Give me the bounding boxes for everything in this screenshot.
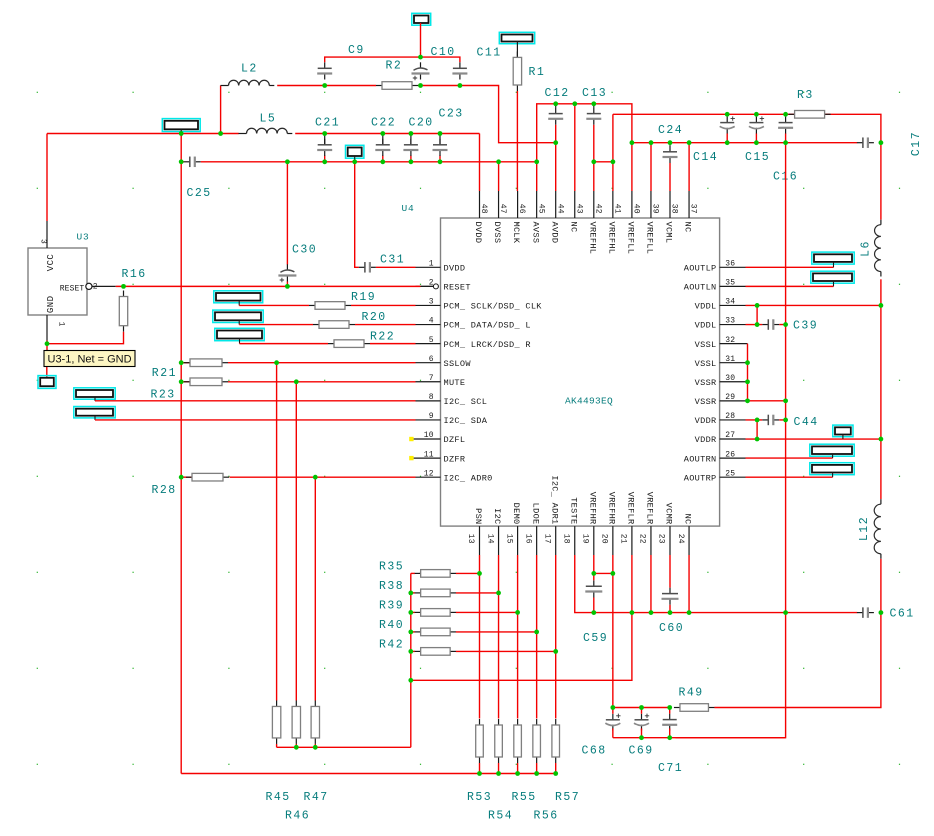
svg-text:L5: L5	[260, 113, 277, 126]
capacitor C31	[359, 262, 376, 273]
svg-text:L2: L2	[241, 63, 258, 76]
svg-text:VREFHL: VREFHL	[606, 222, 616, 255]
svg-text:10: 10	[424, 431, 434, 440]
wire rail1 down to U3 VCC	[46, 134, 48, 222]
svg-text:30: 30	[725, 374, 735, 383]
wire C20 bottom lead	[410, 155, 412, 161]
svg-text:14: 14	[485, 534, 494, 544]
svg-text:1: 1	[429, 260, 434, 269]
wire L2 row to C9	[277, 85, 325, 87]
svg-text:28: 28	[725, 412, 735, 421]
wire AOUTRN pin26	[746, 457, 833, 459]
svg-text:DEM0: DEM0	[511, 503, 521, 525]
capacitor C13	[586, 108, 601, 125]
svg-text:C10: C10	[431, 46, 456, 59]
wire R38 left feed	[411, 592, 415, 594]
wire C44 right lead	[779, 419, 785, 421]
svg-text:TESTE: TESTE	[568, 497, 578, 524]
wire C68 leads	[612, 708, 614, 714]
wire C60 bottom lead	[669, 605, 671, 613]
wire pin17 column down	[555, 555, 557, 719]
resistor R3	[789, 111, 831, 119]
pin 36 AOUTLP	[684, 260, 746, 274]
svg-text:AOUTLP: AOUTLP	[684, 264, 717, 274]
pin 12 I2C_ ADR0	[416, 469, 493, 483]
pin 43 NC	[568, 191, 583, 232]
svg-text:7: 7	[429, 374, 434, 383]
svg-text:C20: C20	[409, 117, 434, 130]
wire port TP1 stub	[180, 129, 182, 133]
resistor R39	[415, 609, 457, 617]
svg-text:R35: R35	[379, 561, 404, 574]
wire VDDL to VDDR segment	[880, 305, 882, 439]
svg-text:I2C_ SCL: I2C_ SCL	[444, 397, 488, 407]
pin 44 AVDD	[549, 191, 564, 243]
wire VCC rail1 horizontal right	[295, 133, 479, 135]
wire C12 top lead	[555, 104, 557, 108]
pin 8 I2C_ SCL	[416, 393, 488, 407]
svg-text:20: 20	[600, 534, 609, 544]
pin 30 VSSR	[695, 374, 748, 388]
svg-text:I2C_ SDA: I2C_ SDA	[444, 416, 488, 426]
capacitor C15	[749, 116, 764, 133]
capacitor C71	[662, 714, 677, 731]
wire R38 to pin column	[456, 592, 499, 594]
wire C69 leads	[641, 708, 643, 714]
wire pad stub R20	[238, 320, 240, 324]
svg-text:C15: C15	[745, 151, 770, 164]
wire pin21 drop through rail	[631, 555, 633, 613]
svg-text:34: 34	[725, 298, 735, 307]
pin 11 DZFR	[409, 450, 465, 464]
svg-text:GND: GND	[46, 296, 56, 314]
wire C10 bottom to cap2 bottom	[421, 85, 460, 87]
wire R45 bottom lead	[276, 744, 278, 747]
wire R45 column	[276, 363, 278, 701]
wire C24 top lead	[669, 143, 671, 146]
wire R40 left feed	[411, 631, 415, 633]
svg-text:R19: R19	[351, 291, 376, 304]
svg-text:24: 24	[676, 534, 685, 544]
wire R39 to pin column	[456, 611, 518, 613]
svg-text:SSLOW: SSLOW	[444, 359, 472, 369]
svg-text:DZFR: DZFR	[444, 454, 466, 464]
pin 26 AOUTRN	[684, 450, 746, 464]
pin 29 VSSR	[695, 393, 748, 407]
pin 37 NC	[683, 191, 698, 232]
svg-text:C68: C68	[582, 745, 607, 758]
svg-text:R42: R42	[379, 639, 404, 652]
wire pin42 drop	[593, 162, 595, 191]
svg-text:MCLK: MCLK	[511, 222, 521, 244]
svg-text:38: 38	[670, 204, 679, 214]
pin 27 VDDR	[695, 431, 746, 445]
svg-text:3: 3	[38, 239, 47, 244]
resistor R57	[552, 719, 560, 763]
wire R46 bottom lead	[295, 744, 297, 747]
svg-text:C60: C60	[659, 622, 684, 635]
svg-text:40: 40	[632, 204, 641, 214]
wire AOUTRP pin25	[746, 476, 833, 478]
pin 39 VREFLL	[645, 191, 660, 254]
wire rail2 GND horizontal	[181, 161, 184, 163]
resistor R45	[272, 700, 280, 744]
svg-text:VREFLL: VREFLL	[626, 222, 636, 255]
svg-text:C13: C13	[582, 87, 607, 100]
resistor R28	[186, 473, 229, 481]
wire R39 left feed	[411, 611, 415, 613]
svg-text:R21: R21	[152, 367, 177, 380]
svg-text:42: 42	[593, 204, 602, 214]
svg-text:R49: R49	[679, 687, 704, 700]
wire pin39 drop	[650, 143, 652, 191]
wire AOUTLN pin35	[746, 285, 834, 287]
svg-text:AVSS: AVSS	[530, 222, 540, 244]
wire R21 to pin6 SSLOW	[228, 362, 416, 364]
svg-text:39: 39	[651, 204, 660, 214]
wire R19 to pin3	[351, 304, 416, 306]
U3 pin 1 GND stub	[46, 296, 66, 341]
wire C20 top lead	[410, 134, 412, 145]
wire C15 leads	[755, 114, 757, 116]
wire C10 top to cap2 top	[421, 57, 460, 62]
svg-text:31: 31	[725, 355, 735, 364]
wire bridge 42-41	[594, 161, 613, 163]
svg-text:15: 15	[504, 534, 513, 544]
svg-text:PCM_ DATA/DSD_ L: PCM_ DATA/DSD_ L	[444, 321, 531, 331]
wire pin22 drop	[650, 555, 652, 613]
wire to R28	[181, 476, 192, 478]
pin 41 VREFHL	[606, 191, 621, 254]
svg-text:C30: C30	[292, 244, 317, 257]
pin 17 I2C_ ADR1	[542, 475, 559, 555]
svg-text:R56: R56	[534, 810, 559, 823]
wire R2 to C10 bottom	[418, 85, 421, 87]
wire C30 drop from rail2	[286, 162, 288, 265]
capacitor C59	[585, 580, 602, 597]
svg-text:C22: C22	[371, 117, 396, 130]
wire pin24 drop	[688, 555, 690, 613]
wire rail1 to C25 vertical	[180, 134, 182, 162]
wire GND resume below tooltip	[46, 366, 48, 378]
port TP2	[412, 13, 431, 25]
wire R53 bottom lead	[479, 763, 481, 774]
pin 33 VDDL	[695, 317, 746, 331]
resistor R35	[415, 570, 457, 578]
pin 13 PSN	[466, 508, 483, 555]
svg-text:13: 13	[466, 534, 475, 544]
wire SCL pad stub	[94, 397, 96, 401]
resistor R42	[415, 648, 457, 656]
svg-text:R46: R46	[285, 810, 310, 823]
pin 46 MCLK	[511, 191, 526, 244]
pin 34 VDDL	[695, 298, 746, 312]
capacitor C44	[762, 415, 779, 426]
svg-text:VREFHL: VREFHL	[587, 222, 597, 255]
svg-text:DVDD: DVDD	[473, 222, 483, 244]
pad SDA	[74, 407, 115, 418]
svg-text:C24: C24	[658, 124, 683, 137]
wire R40 to pin column	[456, 631, 537, 633]
svg-text:VREFLR: VREFLR	[626, 492, 636, 525]
wire C23 bottom lead	[439, 155, 441, 161]
wire C22 top lead	[382, 134, 384, 145]
capacitor C20	[403, 139, 418, 156]
wire VDDR down to L12	[880, 439, 882, 499]
resistor R23	[184, 378, 228, 386]
svg-text:9: 9	[429, 412, 434, 421]
U3 pin 3 VCC stub	[38, 221, 56, 271]
svg-text:I2C_ ADR1: I2C_ ADR1	[549, 475, 559, 524]
wire pad stub R22	[239, 339, 241, 344]
wire TP4 stub	[842, 435, 844, 440]
inductor L5	[239, 128, 293, 133]
wire C31 to pin1 DVDD	[376, 266, 416, 268]
svg-text:VSSR: VSSR	[695, 397, 717, 407]
capacitor C61	[857, 607, 874, 618]
svg-text:R20: R20	[362, 311, 387, 324]
capacitor C39	[762, 319, 779, 330]
wire pin21 horizontal y680	[411, 613, 632, 681]
wire VSSR to C16 vertical	[748, 400, 786, 402]
wire C39 branch vertical	[756, 305, 758, 324]
wire pad stub AOUTLP	[833, 262, 835, 267]
svg-text:12: 12	[424, 469, 434, 478]
U3 pin 2 RESET bubble	[60, 282, 116, 293]
svg-text:I2C: I2C	[492, 508, 502, 524]
svg-text:16: 16	[523, 534, 532, 544]
svg-text:VDDR: VDDR	[695, 435, 717, 445]
svg-text:R22: R22	[370, 331, 395, 344]
port GND	[38, 376, 56, 389]
svg-text:C14: C14	[693, 151, 718, 164]
grid dots (decorative)	[37, 92, 900, 765]
wire C68 bottom rail	[613, 737, 786, 739]
svg-text:47: 47	[498, 204, 507, 214]
pad R19	[214, 291, 263, 303]
svg-text:C11: C11	[477, 47, 502, 60]
wire L2 feed down	[220, 86, 222, 134]
pin 10 DZFL	[409, 431, 465, 445]
pin 6 SSLOW	[416, 355, 472, 369]
svg-text:VSSL: VSSL	[695, 340, 717, 350]
wire R55 bottom lead	[517, 763, 519, 774]
wire SDA pad stub	[94, 416, 96, 420]
wire L12 to C61 node	[880, 559, 882, 613]
wire VSSL pin32 corner	[747, 344, 749, 401]
junction dots layer	[45, 55, 884, 776]
svg-text:DZFL: DZFL	[444, 435, 466, 445]
resistor R38	[415, 589, 457, 597]
wire SDA to pin9	[95, 419, 416, 421]
svg-text:44: 44	[555, 204, 564, 214]
svg-text:3: 3	[429, 298, 434, 307]
svg-text:C39: C39	[793, 320, 818, 333]
wire right vertical top segment	[880, 143, 882, 220]
svg-text:R1: R1	[529, 66, 546, 79]
wire pad stub R19	[238, 301, 240, 306]
resistor R22	[328, 340, 370, 348]
pin 2 RESET	[416, 279, 471, 293]
wire R35 left feed	[411, 572, 415, 574]
svg-text:PSN: PSN	[473, 508, 483, 524]
wire C44 branch vertical	[756, 420, 758, 439]
svg-text:C17: C17	[910, 131, 923, 156]
wire GND node to port	[46, 344, 48, 351]
pad AOUTLP	[812, 252, 854, 264]
pin 32 VSSL	[695, 336, 748, 350]
resistor R56	[533, 719, 541, 763]
wire pin43 drop	[574, 104, 576, 191]
wire R47 bottom lead	[314, 744, 316, 747]
svg-text:VREFHR: VREFHR	[606, 492, 616, 525]
pin 20 VREFHR	[600, 492, 617, 555]
svg-text:VDDL: VDDL	[695, 321, 717, 331]
svg-text:6: 6	[429, 355, 434, 364]
svg-text:C31: C31	[380, 254, 405, 267]
svg-text:R23: R23	[151, 389, 176, 402]
pin 16 LDOE	[523, 503, 540, 555]
svg-text:23: 23	[657, 534, 666, 544]
wire C16 long vertical	[676, 143, 786, 738]
wire L6 to VDDL	[880, 279, 882, 305]
wire C59 bottom lead	[593, 598, 595, 613]
svg-text:VREFLR: VREFLR	[645, 492, 655, 525]
wire pin37 drop	[688, 143, 690, 191]
svg-text:29: 29	[725, 393, 735, 402]
capacitor C17	[857, 137, 874, 148]
svg-text:8: 8	[429, 393, 434, 402]
wire R46 column	[295, 382, 297, 701]
wire RESET row	[116, 285, 421, 287]
wire rail1 down to pin48 DVDD	[479, 134, 481, 192]
capacitor C	[452, 62, 467, 79]
svg-text:RESET: RESET	[60, 284, 85, 293]
pin 4 PCM_ DATA/DSD_ L	[416, 317, 531, 331]
wire pin20 column to C68	[612, 573, 614, 707]
svg-text:17: 17	[542, 534, 551, 544]
svg-text:C59: C59	[583, 632, 608, 645]
svg-text:C61: C61	[890, 608, 915, 621]
svg-text:R2: R2	[386, 60, 403, 73]
svg-text:AOUTLN: AOUTLN	[684, 283, 717, 293]
wire VDDR pin27	[746, 438, 881, 440]
svg-text:18: 18	[561, 534, 570, 544]
wire pin14 column down	[498, 555, 500, 719]
capacitor C23	[433, 139, 448, 156]
port TP3	[346, 145, 364, 158]
pin 42 VREFHL	[587, 191, 602, 254]
pin 14 I2C	[485, 508, 502, 555]
pin 28 VDDR	[695, 412, 746, 426]
svg-text:PCM_ LRCK/DSD_ R: PCM_ LRCK/DSD_ R	[444, 340, 531, 350]
resistor R21	[184, 359, 228, 367]
wire right vertical bottom to R49 net	[714, 613, 881, 708]
svg-text:37: 37	[689, 204, 698, 214]
pin 15 DEM0	[504, 503, 521, 555]
wire pin40 drop	[631, 143, 633, 191]
port C11	[499, 32, 534, 43]
svg-text:PCM_ SCLK/DSD_ CLK: PCM_ SCLK/DSD_ CLK	[444, 302, 543, 312]
svg-text:AOUTRP: AOUTRP	[684, 473, 717, 483]
resistor R19	[309, 302, 351, 310]
svg-text:VCML: VCML	[664, 222, 674, 244]
wire pin15 column down	[517, 555, 519, 719]
wire pad stub AOUTLN	[833, 281, 835, 286]
wire port TP2 down to C10 node	[420, 23, 422, 51]
svg-text:R45: R45	[266, 791, 291, 804]
resistor R49	[674, 704, 715, 712]
wire rail2 right of C25	[201, 161, 537, 163]
capacitor C22	[375, 139, 390, 156]
svg-text:U3-1, Net = GND: U3-1, Net = GND	[48, 354, 132, 366]
wire R16 bottom to GND node	[47, 332, 124, 344]
svg-text:46: 46	[517, 204, 526, 214]
wire to R21	[181, 362, 190, 364]
svg-text:R3: R3	[797, 89, 814, 102]
resistor R2	[376, 82, 418, 90]
svg-text:AOUTRN: AOUTRN	[684, 454, 717, 464]
pad SCL	[74, 388, 115, 399]
svg-text:L6: L6	[860, 240, 873, 257]
note box U3-1 Net=GND	[44, 351, 135, 367]
pin 5 PCM_ LRCK/DSD_ R	[416, 336, 531, 350]
svg-text:R38: R38	[379, 580, 404, 593]
capacitor C10	[412, 62, 430, 80]
svg-text:R40: R40	[379, 619, 404, 632]
svg-text:1: 1	[57, 322, 66, 327]
capacitor C25	[184, 157, 201, 168]
wire R22 to pin5	[370, 343, 416, 345]
wire C39 right lead	[779, 324, 785, 326]
wire pin45 AVSS drop	[536, 162, 538, 191]
wire pad to R22	[240, 343, 329, 345]
svg-text:21: 21	[619, 534, 628, 544]
svg-text:5: 5	[429, 336, 434, 345]
wire R54 bottom lead	[498, 763, 500, 774]
pad R22	[215, 328, 264, 340]
svg-text:45: 45	[536, 204, 545, 214]
svg-text:R57: R57	[555, 791, 580, 804]
wire VDDL pin34	[746, 304, 881, 306]
wire R-block left vertical	[410, 573, 412, 747]
svg-text:2: 2	[93, 282, 98, 291]
wire C23 top lead	[439, 134, 441, 145]
svg-text:AVDD: AVDD	[549, 222, 559, 244]
svg-text:R55: R55	[512, 791, 537, 804]
wire VREFH rail y114	[613, 114, 881, 142]
wire R56 bottom lead	[536, 763, 538, 774]
capacitor C68	[605, 714, 620, 731]
wire pin23 to C60	[669, 555, 671, 588]
svg-text:VREFHR: VREFHR	[587, 492, 597, 525]
pin 45 AVSS	[530, 191, 545, 243]
wire pin47 DVSS drop	[498, 162, 500, 191]
capacitor C30	[278, 264, 296, 282]
wire C71 leads	[669, 708, 671, 714]
wire C9 top	[325, 57, 421, 62]
wire SCL to pin8	[95, 400, 416, 402]
wire C22 bottom lead	[382, 155, 384, 161]
svg-text:U4: U4	[402, 203, 415, 214]
svg-text:C69: C69	[629, 745, 654, 758]
wire C11 to R1	[516, 42, 518, 58]
svg-text:VCC: VCC	[46, 254, 56, 272]
capacitor C9	[317, 62, 332, 79]
port TP4	[833, 425, 853, 437]
wire VDDL pin33	[746, 324, 763, 326]
svg-text:19: 19	[581, 534, 590, 544]
